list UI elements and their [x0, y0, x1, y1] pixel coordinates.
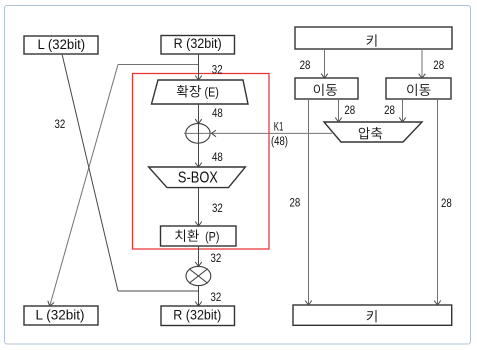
svg-text:28: 28: [344, 103, 355, 117]
svg-text:S-BOX: S-BOX: [178, 170, 218, 187]
svg-text:R (32bit): R (32bit): [174, 36, 222, 51]
svg-text:32: 32: [211, 290, 222, 304]
svg-text:28: 28: [300, 58, 311, 72]
svg-text:32: 32: [55, 117, 66, 131]
svg-text:(P): (P): [205, 229, 219, 244]
svg-text:(E): (E): [205, 84, 219, 99]
svg-text:L (32bit): L (32bit): [36, 308, 85, 323]
svg-text:(48): (48): [271, 134, 288, 148]
svg-text:32: 32: [211, 251, 222, 265]
svg-text:L (32bit): L (32bit): [37, 37, 85, 52]
svg-text:28: 28: [290, 195, 301, 209]
svg-text:32: 32: [212, 62, 223, 76]
svg-text:K1: K1: [274, 119, 284, 133]
svg-text:32: 32: [212, 201, 223, 215]
svg-text:28: 28: [433, 58, 444, 72]
svg-text:28: 28: [441, 196, 452, 210]
svg-text:48: 48: [212, 150, 223, 164]
svg-text:R (32bit): R (32bit): [173, 308, 221, 323]
svg-text:48: 48: [212, 106, 223, 120]
svg-text:28: 28: [384, 103, 395, 117]
